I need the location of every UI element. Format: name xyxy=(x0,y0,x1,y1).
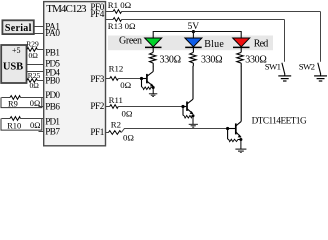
svg-text:USB: USB xyxy=(3,61,23,72)
switch SW1 xyxy=(265,62,285,76)
wire Serial to PA0 xyxy=(34,33,44,35)
ground (SW1) xyxy=(278,76,291,81)
svg-text:PF4: PF4 xyxy=(90,9,104,19)
svg-text:Red: Red xyxy=(254,39,268,50)
svg-text:R25: R25 xyxy=(28,71,41,80)
svg-text:SW1: SW1 xyxy=(265,62,281,72)
svg-text:PB6: PB6 xyxy=(45,101,60,111)
pin stub PB6 xyxy=(39,106,44,108)
LED band background xyxy=(108,36,273,51)
svg-text:PB7: PB7 xyxy=(45,127,60,137)
svg-text:330Ω: 330Ω xyxy=(245,55,266,66)
wire Serial to PA1 xyxy=(34,26,44,28)
resistor R11 0Ω (PF2 to Q2 base) xyxy=(106,95,184,119)
ground (SW2) xyxy=(314,76,327,81)
USB block xyxy=(1,45,26,83)
resistor 330Ω (blue branch) xyxy=(190,52,223,66)
svg-text:R13 0Ω: R13 0Ω xyxy=(108,21,136,31)
svg-text:PF2: PF2 xyxy=(90,101,104,111)
resistor 330Ω (red branch) xyxy=(237,52,267,66)
svg-text:0Ω: 0Ω xyxy=(30,121,40,130)
svg-text:PB0: PB0 xyxy=(45,76,60,86)
ground (Q2 emitter) xyxy=(189,124,198,127)
ground (Q3 emitter) xyxy=(235,149,246,153)
resistor R1 0Ω (PF0 to SW2) xyxy=(106,0,321,13)
LED blue xyxy=(185,32,202,53)
svg-text:Blue: Blue xyxy=(204,39,224,50)
svg-text:R1 0Ω: R1 0Ω xyxy=(108,0,132,10)
wire PF4 to SW1 (vertical) xyxy=(284,20,286,62)
wire PF0 to SW2 (vertical) xyxy=(320,12,322,62)
svg-text:PD1: PD1 xyxy=(45,117,60,127)
LED green xyxy=(145,38,162,52)
svg-text:R10: R10 xyxy=(7,122,21,131)
transistor Q1 DTC114EET1G (green) xyxy=(140,66,155,94)
svg-text:SW2: SW2 xyxy=(299,62,315,72)
svg-text:R11: R11 xyxy=(109,95,123,105)
svg-text:PA0: PA0 xyxy=(45,28,60,38)
resistor R10 0Ω (to PD1) xyxy=(1,117,44,131)
resistor R2 0Ω (PF1 to Q3 base) xyxy=(106,119,228,142)
transistor Q2 DTC114EET1G (blue) xyxy=(181,66,194,124)
ground (Q1 emitter) xyxy=(149,94,157,97)
MCU U1 TM4C123 box xyxy=(44,2,106,146)
svg-text:DTC114EET1G: DTC114EET1G xyxy=(252,116,307,126)
switch SW2 xyxy=(299,62,321,76)
transistor Q3 DTC114EET1G (red) xyxy=(226,66,242,149)
svg-text:Green: Green xyxy=(119,35,142,46)
resistor R13 0Ω (PF4 to SW1) xyxy=(106,18,285,31)
svg-text:R29: R29 xyxy=(26,40,39,49)
svg-text:PB1: PB1 xyxy=(45,48,60,58)
svg-text:330Ω: 330Ω xyxy=(201,55,223,66)
svg-text:0Ω: 0Ω xyxy=(29,51,39,60)
pin stub PB7 xyxy=(39,131,44,133)
svg-text:330Ω: 330Ω xyxy=(160,55,182,66)
svg-text:0Ω: 0Ω xyxy=(122,109,133,119)
wire USB to PD5 xyxy=(27,64,44,66)
wire 5V rail xyxy=(153,32,241,39)
svg-text:Serial: Serial xyxy=(5,23,32,34)
svg-text:0Ω: 0Ω xyxy=(30,81,40,90)
resistor R12 0Ω (PF3 to Q1 base) xyxy=(106,64,142,91)
svg-text:PF3: PF3 xyxy=(90,74,104,84)
LED red xyxy=(233,38,250,52)
svg-text:0Ω: 0Ω xyxy=(123,133,134,143)
wire USB to PD4 xyxy=(27,71,44,73)
svg-text:0Ω: 0Ω xyxy=(120,80,131,90)
Serial block xyxy=(2,20,33,34)
resistor R29 0Ω (USB +5 to PB1) xyxy=(26,40,44,61)
svg-text:PF1: PF1 xyxy=(90,127,104,137)
svg-text:R12: R12 xyxy=(109,64,124,74)
resistor R25 0Ω (USB to PB0) xyxy=(27,71,44,90)
svg-text:R9: R9 xyxy=(8,99,18,108)
svg-text:TM4C123: TM4C123 xyxy=(46,3,87,15)
svg-text:+5: +5 xyxy=(12,46,21,55)
svg-text:R2: R2 xyxy=(111,119,121,129)
5V supply xyxy=(187,22,199,33)
resistor 330Ω (green branch) xyxy=(150,52,182,66)
resistor R9 0Ω (to PD0) xyxy=(1,96,44,109)
svg-text:PD0: PD0 xyxy=(45,90,60,100)
